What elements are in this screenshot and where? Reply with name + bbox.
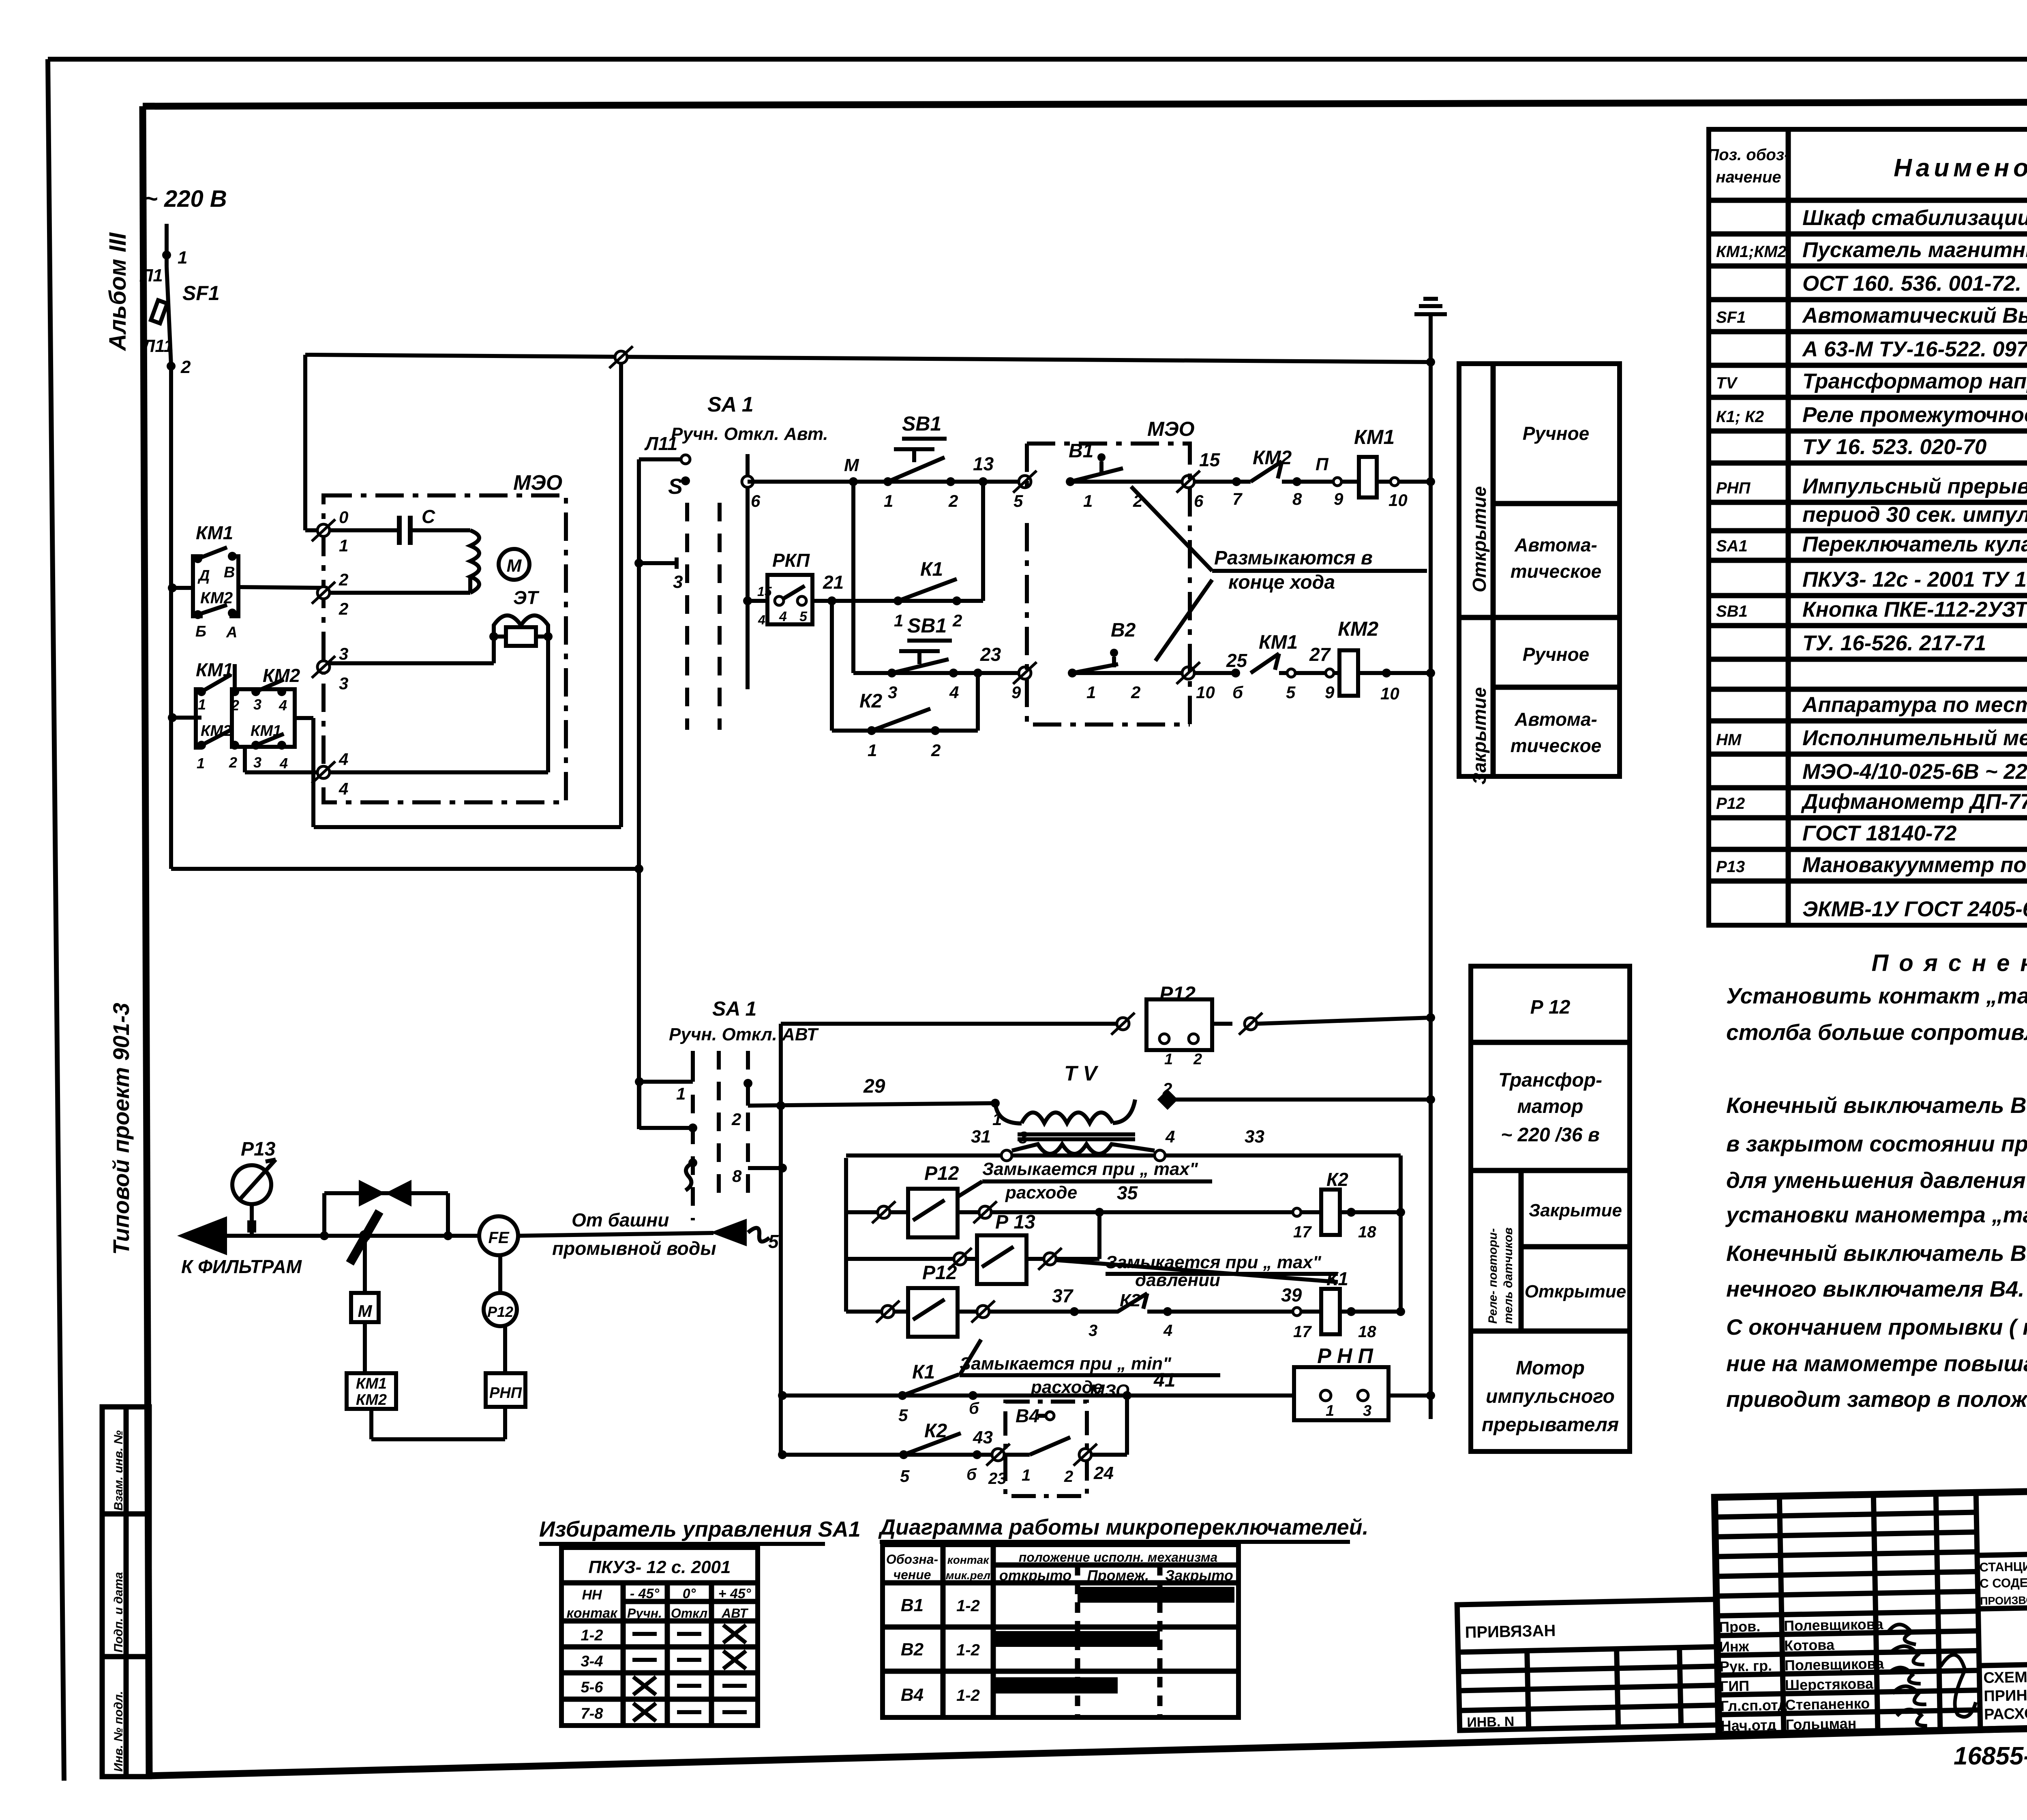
- svg-text:Т V: Т V: [1064, 1062, 1099, 1085]
- svg-text:1: 1: [197, 755, 205, 772]
- drive link: [363, 1239, 367, 1293]
- svg-text:2: 2: [180, 357, 191, 377]
- MEO terminal 10/25: [1176, 662, 1200, 684]
- wire branch 13 down: [981, 482, 985, 601]
- svg-text:ПКУЗ- 12 с. 2001: ПКУЗ- 12 с. 2001: [588, 1557, 731, 1577]
- wire L11 riser: [637, 459, 641, 1129]
- svg-text:Исполнительный механизм: Исполнительный механизм: [1802, 726, 2027, 750]
- svg-text:SA 1: SA 1: [712, 997, 756, 1020]
- svg-text:1-2: 1-2: [956, 1687, 980, 1704]
- svg-text:8: 8: [732, 1166, 742, 1185]
- svg-text:3: 3: [1018, 1128, 1028, 1147]
- svg-text:К1: К1: [920, 559, 943, 580]
- svg-text:КМ2: КМ2: [356, 1391, 387, 1408]
- top bus: [305, 355, 1431, 362]
- svg-text:21: 21: [823, 572, 844, 593]
- svg-text:МЭО: МЭО: [513, 471, 562, 495]
- rung K1 wire: [778, 1391, 787, 1400]
- function table lower: [1471, 966, 1630, 1451]
- svg-text:Размыкаются в: Размыкаются в: [1214, 547, 1373, 569]
- svg-text:5-6: 5-6: [581, 1679, 604, 1696]
- svg-text:1: 1: [1022, 1466, 1031, 1484]
- svg-text:Открытие: Открытие: [1525, 1282, 1626, 1301]
- svg-text:4: 4: [949, 683, 959, 702]
- svg-text:Гл.сп.отд: Гл.сп.отд: [1720, 1696, 1787, 1714]
- box KM1 KM2: [347, 1373, 396, 1409]
- circle P12: [484, 1293, 517, 1326]
- MEO terminal 9: [1013, 662, 1037, 684]
- svg-text:4: 4: [279, 697, 287, 714]
- TV secondary: [1012, 1144, 1155, 1154]
- svg-text:А: А: [226, 624, 237, 641]
- svg-text:Ручное: Ручное: [1523, 423, 1590, 444]
- svg-text:2: 2: [1131, 683, 1140, 702]
- svg-text:приводит затвор в положение: приводит затвор в положение „ закрыто.": [1726, 1387, 2027, 1412]
- svg-text:АВТ: АВТ: [721, 1606, 748, 1621]
- svg-text:2: 2: [339, 599, 348, 618]
- svg-text:В2: В2: [901, 1640, 924, 1659]
- svg-text:Р13: Р13: [241, 1138, 276, 1160]
- svg-text:15: 15: [1199, 449, 1221, 470]
- svg-text:промывной воды: промывной воды: [552, 1238, 716, 1259]
- MEO terminal 5: [1013, 471, 1037, 493]
- svg-text:Замыкается при „ max": Замыкается при „ max": [982, 1159, 1198, 1179]
- svg-text:S: S: [668, 474, 683, 499]
- svg-text:Трансформатор напряжения ТБС3-: Трансформатор напряжения ТБС3-016: [1802, 369, 2027, 393]
- svg-text:1: 1: [1326, 1402, 1334, 1419]
- node M: [849, 477, 858, 486]
- svg-text:матор: матор: [1517, 1096, 1583, 1117]
- svg-text:тель датчиков: тель датчиков: [1502, 1227, 1515, 1324]
- svg-text:SB1: SB1: [907, 614, 947, 637]
- svg-text:25: 25: [1226, 650, 1248, 671]
- svg-text:Промеж.: Промеж.: [1087, 1567, 1149, 1584]
- svg-text:FE: FE: [488, 1229, 509, 1247]
- svg-text:ТУ. 16-526. 217-71: ТУ. 16-526. 217-71: [1802, 631, 1986, 655]
- svg-text:7: 7: [1232, 489, 1243, 508]
- MEO terminal 6/15: [1176, 471, 1200, 493]
- svg-text:3: 3: [339, 674, 348, 693]
- svg-text:0: 0: [339, 508, 348, 527]
- svg-text:МЭО-4/10-025-6В ~ 220В: МЭО-4/10-025-6В ~ 220В: [1802, 760, 2027, 784]
- svg-text:2: 2: [229, 754, 237, 771]
- svg-text:5: 5: [799, 609, 808, 624]
- svg-text:5: 5: [1286, 683, 1296, 702]
- svg-text:15: 15: [757, 584, 772, 599]
- svg-text:2: 2: [231, 697, 239, 714]
- svg-text:Шерстякова: Шерстякова: [1785, 1675, 1874, 1694]
- svg-text:Реле- повтори-: Реле- повтори-: [1486, 1228, 1500, 1324]
- svg-text:4: 4: [339, 779, 348, 798]
- svg-text:2: 2: [731, 1110, 741, 1129]
- svg-text:С окончанием промывки ( после: С окончанием промывки ( после закрытия з…: [1726, 1314, 2027, 1340]
- svg-text:ГОСТ 18140-72: ГОСТ 18140-72: [1802, 821, 1956, 845]
- svg-text:1-2: 1-2: [581, 1627, 603, 1644]
- svg-text:+ 45°: + 45°: [718, 1586, 751, 1601]
- svg-text:конце хода: конце хода: [1228, 572, 1335, 593]
- svg-text:~ 220 /36 в: ~ 220 /36 в: [1501, 1124, 1600, 1146]
- svg-text:Котова: Котова: [1784, 1636, 1835, 1654]
- limit switch box dash-dot: [1027, 444, 1190, 725]
- svg-text:К1; К2: К1; К2: [1716, 408, 1764, 426]
- terminal 0/1: [312, 519, 335, 541]
- svg-text:16855-03: 16855-03: [1954, 1742, 2027, 1770]
- svg-text:К1: К1: [1326, 1268, 1348, 1289]
- wire left bus down: [169, 366, 173, 869]
- riser to rungs: [779, 1024, 783, 1455]
- svg-text:1: 1: [676, 1084, 686, 1103]
- svg-text:КМ2: КМ2: [263, 665, 300, 686]
- box RNP: [486, 1373, 525, 1407]
- svg-text:Полевщикова: Полевщикова: [1785, 1655, 1885, 1674]
- svg-text:43: 43: [973, 1428, 993, 1447]
- svg-text:1: 1: [178, 248, 187, 268]
- svg-text:Дифманометр ДП-778р ~ 220В: Дифманометр ДП-778р ~ 220В: [1801, 790, 2027, 814]
- svg-text:Р12: Р12: [1716, 795, 1745, 812]
- rung A wire: [846, 1210, 908, 1214]
- svg-text:контак: контак: [947, 1554, 990, 1566]
- S hook: [688, 1158, 697, 1167]
- svg-text:4: 4: [279, 755, 288, 772]
- svg-text:6: 6: [1194, 491, 1204, 510]
- svg-text:Открытие: Открытие: [1469, 486, 1490, 592]
- svg-text:РНП: РНП: [1716, 479, 1751, 497]
- breaker SF1: [167, 267, 171, 365]
- svg-text:Полевщикова: Полевщикова: [1784, 1616, 1884, 1634]
- svg-text:Автома-: Автома-: [1514, 709, 1597, 730]
- svg-text:Р12: Р12: [922, 1262, 957, 1284]
- svg-text:ТУ 16. 523. 020-70: ТУ 16. 523. 020-70: [1802, 435, 1986, 459]
- svg-text:Д: Д: [197, 567, 210, 584]
- svg-text:б: б: [1232, 683, 1243, 702]
- L11 corner to col1: [637, 1082, 641, 1128]
- capacitor C: [329, 528, 399, 532]
- svg-text:Конечный выключатель В 4 уст: Конечный выключатель В 4 установить так,…: [1726, 1093, 2027, 1118]
- svg-text:17: 17: [1293, 1323, 1312, 1341]
- junction on bus: [609, 346, 633, 368]
- svg-text:5: 5: [1013, 491, 1023, 510]
- svg-text:КМ1: КМ1: [1354, 426, 1395, 448]
- svg-text:Переключатель кулачковый: Переключатель кулачковый: [1802, 532, 2027, 556]
- svg-text:17: 17: [1293, 1223, 1312, 1241]
- svg-text:Избиратель управления SA1: Избиратель управления SA1: [539, 1517, 861, 1541]
- svg-text:9: 9: [1325, 683, 1335, 702]
- svg-text:3: 3: [673, 572, 683, 592]
- wire 2 to bus: [1168, 1098, 1431, 1102]
- svg-text:5: 5: [768, 1231, 779, 1252]
- svg-text:SA1: SA1: [1716, 537, 1748, 555]
- svg-text:Диаграмма работы микропере: Диаграмма работы микропереключателей.: [878, 1515, 1369, 1539]
- svg-text:18: 18: [1358, 1323, 1376, 1341]
- wire t4: [329, 770, 548, 774]
- bypass valve: [322, 1193, 326, 1236]
- diagram bars: [1078, 1587, 1234, 1603]
- svg-text:период 30 сек. импульс - 50%: период 30 сек. импульс - 50%: [1802, 503, 2027, 527]
- svg-text:0°: 0°: [683, 1586, 696, 1601]
- svg-text:Р 13: Р 13: [995, 1211, 1035, 1233]
- svg-text:1: 1: [1086, 683, 1096, 702]
- svg-text:КМ1;КМ2: КМ1;КМ2: [1716, 243, 1787, 261]
- svg-text:Трансфор-: Трансфор-: [1498, 1070, 1602, 1091]
- svg-text:Р12: Р12: [924, 1163, 959, 1184]
- wire L1 drop: [165, 224, 169, 267]
- wire return riser: [619, 357, 623, 827]
- svg-text:К2: К2: [859, 690, 883, 712]
- svg-text:В4: В4: [901, 1685, 924, 1705]
- svg-text:для уменьшения давления до: для уменьшения давления до величины мень…: [1726, 1168, 2027, 1193]
- svg-text:18: 18: [1358, 1223, 1376, 1241]
- svg-text:3: 3: [1088, 1322, 1097, 1340]
- svg-text:импульсного: импульсного: [1486, 1386, 1615, 1407]
- svg-text:МЗО: МЗО: [1090, 1381, 1129, 1401]
- svg-text:начение: начение: [1716, 168, 1781, 186]
- svg-text:КМ1: КМ1: [356, 1375, 387, 1392]
- margin stamp strip: [102, 1407, 149, 1777]
- svg-text:1: 1: [884, 491, 893, 510]
- privyazan block: [1457, 1599, 1718, 1730]
- svg-text:27: 27: [1309, 644, 1331, 665]
- svg-text:9: 9: [1334, 489, 1343, 508]
- svg-text:Закрытие: Закрытие: [1529, 1200, 1622, 1220]
- svg-text:положение исполн. механизма: положение исполн. механизма: [1019, 1550, 1218, 1565]
- rung C wire: [846, 1310, 908, 1314]
- selector table: [561, 1548, 758, 1726]
- svg-text:9: 9: [1011, 683, 1021, 702]
- svg-text:КМ1: КМ1: [196, 522, 233, 543]
- svg-text:нечного выключателя В4.: нечного выключателя В4.: [1726, 1276, 2025, 1301]
- right bus: [1429, 362, 1433, 1419]
- svg-text:Альбом III: Альбом III: [105, 232, 131, 352]
- svg-text:Пускатель магнитный ПМЕ-114: Пускатель магнитный ПМЕ-114: [1802, 238, 2027, 262]
- svg-text:Р12: Р12: [1159, 982, 1196, 1005]
- svg-text:Подп. и дата: Подп. и дата: [112, 1572, 125, 1653]
- svg-text:Инв. № подл.: Инв. № подл.: [112, 1691, 125, 1772]
- wire 29: [748, 1103, 995, 1106]
- svg-text:3: 3: [1363, 1402, 1371, 1419]
- svg-text:НН: НН: [582, 1587, 602, 1603]
- relay P12 box: [1146, 999, 1212, 1050]
- svg-text:К2: К2: [1326, 1169, 1348, 1190]
- svg-text:Конечный выключатель В1 и В: Конечный выключатель В1 и В2 размыкается…: [1726, 1241, 2027, 1266]
- svg-text:3: 3: [339, 644, 348, 663]
- svg-text:МЭО: МЭО: [1147, 418, 1195, 440]
- svg-text:Откл: Откл: [671, 1606, 707, 1621]
- svg-text:3: 3: [253, 754, 261, 771]
- svg-text:П: П: [1316, 454, 1329, 474]
- svg-text:Поз. обоз-: Поз. обоз-: [1707, 146, 1789, 164]
- rung k1 wire: [812, 599, 983, 603]
- svg-text:3: 3: [253, 696, 261, 713]
- svg-text:31: 31: [971, 1127, 991, 1147]
- svg-text:А 63-М ТУ-16-522. 097-73.: А 63-М ТУ-16-522. 097-73.: [1802, 337, 2027, 361]
- svg-text:ИНВ. N: ИНВ. N: [1467, 1714, 1515, 1730]
- svg-text:ГИП: ГИП: [1720, 1677, 1749, 1694]
- svg-text:10: 10: [1388, 491, 1408, 510]
- svg-text:23: 23: [980, 644, 1001, 665]
- svg-text:35: 35: [1117, 1182, 1138, 1203]
- svg-text:SB1: SB1: [902, 412, 941, 435]
- svg-text:13: 13: [973, 453, 994, 474]
- svg-text:2: 2: [1193, 1051, 1202, 1068]
- svg-text:К1: К1: [912, 1361, 935, 1383]
- svg-text:Установить контакт „max" вак: Установить контакт „max" вакуумметра Р 1…: [1726, 983, 2027, 1008]
- svg-text:- 45°: - 45°: [630, 1586, 660, 1601]
- svg-text:Инж: Инж: [1719, 1638, 1749, 1655]
- svg-text:C: C: [422, 506, 435, 527]
- rung P12 wire: [781, 1022, 1123, 1026]
- pipe main line: [177, 1216, 227, 1255]
- svg-text:прерывателя: прерывателя: [1482, 1414, 1619, 1436]
- svg-text:39: 39: [1281, 1284, 1302, 1306]
- svg-text:2: 2: [931, 741, 941, 760]
- svg-text:б: б: [969, 1400, 979, 1417]
- svg-text:Рук. гр.: Рук. гр.: [1720, 1657, 1772, 1675]
- svg-text:SA 1: SA 1: [707, 393, 754, 416]
- contact KM2 NC: [1194, 480, 1251, 484]
- svg-text:Обозна-: Обозна-: [886, 1552, 938, 1567]
- svg-text:1: 1: [1164, 1051, 1173, 1068]
- svg-text:4: 4: [1163, 1322, 1172, 1340]
- svg-text:Закрыто: Закрыто: [1165, 1567, 1233, 1584]
- svg-text:1: 1: [1083, 491, 1093, 510]
- rung B wire: [846, 1257, 977, 1261]
- svg-text:3: 3: [888, 683, 897, 702]
- svg-text:Р13: Р13: [1716, 858, 1745, 876]
- svg-text:Аппаратура по месту: Аппаратура по месту: [1802, 693, 2027, 717]
- svg-text:В: В: [224, 564, 235, 581]
- left rail: [844, 1158, 848, 1312]
- svg-text:2: 2: [339, 570, 348, 589]
- svg-text:10: 10: [1380, 684, 1399, 703]
- svg-text:Р 12: Р 12: [1530, 997, 1571, 1018]
- svg-text:Кнопка ПКЕ-112-2УЗТУ.16.526.21: Кнопка ПКЕ-112-2УЗТУ.16.526.216-71: [1802, 598, 2027, 622]
- wire t3: [329, 661, 494, 665]
- svg-text:7-8: 7-8: [581, 1705, 604, 1722]
- svg-text:В4: В4: [1016, 1405, 1039, 1426]
- svg-text:ПРИВЯЗАН: ПРИВЯЗАН: [1465, 1622, 1556, 1642]
- svg-text:3-4: 3-4: [581, 1653, 603, 1670]
- svg-text:2: 2: [1064, 1468, 1073, 1486]
- svg-text:От башни: От башни: [572, 1209, 669, 1230]
- svg-text:5: 5: [900, 1466, 910, 1486]
- wires from lower block: [233, 664, 237, 692]
- wire L11 feed horizontal: [171, 867, 639, 871]
- svg-text:SB1: SB1: [1716, 602, 1748, 620]
- terminal 2: [312, 582, 335, 604]
- svg-text:1-2: 1-2: [956, 1641, 980, 1659]
- svg-text:TV: TV: [1716, 374, 1738, 392]
- svg-text:Пров.: Пров.: [1719, 1618, 1761, 1636]
- svg-text:~ 220 В: ~ 220 В: [144, 186, 227, 212]
- svg-text:Взам. инв. №: Взам. инв. №: [112, 1430, 125, 1511]
- svg-text:В2: В2: [1111, 620, 1136, 641]
- svg-text:8: 8: [1292, 489, 1302, 508]
- box M: [351, 1293, 379, 1322]
- svg-text:4: 4: [339, 750, 348, 769]
- svg-text:Ручн. Откл. АВТ: Ручн. Откл. АВТ: [669, 1025, 819, 1044]
- svg-text:установки манометра „max.": установки манометра „max.": [1725, 1202, 2027, 1227]
- svg-text:2: 2: [948, 491, 958, 510]
- svg-text:5: 5: [898, 1406, 908, 1425]
- svg-text:SF1: SF1: [182, 282, 220, 304]
- circle FE: [479, 1216, 518, 1255]
- svg-text:К ФИЛЬТРАМ: К ФИЛЬТРАМ: [181, 1256, 302, 1277]
- svg-text:1: 1: [339, 536, 348, 555]
- svg-text:Замыкается при „ min": Замыкается при „ min": [960, 1354, 1172, 1374]
- svg-text:Пояснение к схеме: Пояснение к схеме: [1872, 950, 2027, 976]
- SA1 contact S: [681, 476, 690, 485]
- svg-text:Импульсный прерыватель РНП-2: Импульсный прерыватель РНП-2: [1802, 474, 2027, 498]
- svg-text:Ручное: Ручное: [1523, 644, 1590, 665]
- svg-text:РНП: РНП: [1317, 1344, 1379, 1368]
- svg-text:ние на мамометре повышается: ние на мамометре повышается и он своим к…: [1726, 1351, 2027, 1376]
- svg-text:1: 1: [198, 696, 206, 713]
- svg-text:РНП: РНП: [489, 1385, 522, 1402]
- drawing frame: [143, 101, 2027, 106]
- svg-text:4: 4: [758, 613, 765, 627]
- svg-text:М: М: [358, 1301, 373, 1321]
- svg-text:6: 6: [751, 491, 761, 510]
- terminal 4: [312, 761, 335, 783]
- right rail: [1399, 1158, 1403, 1312]
- tap 2 / wire 29 start: [744, 1079, 752, 1088]
- svg-text:ЭКМВ-1У ГОСТ 2405-63: ЭКМВ-1У ГОСТ 2405-63: [1802, 897, 2027, 921]
- svg-text:расходе: расходе: [1005, 1183, 1077, 1203]
- svg-text:Ручн.: Ручн.: [627, 1606, 662, 1621]
- bus drop to MEO: [303, 355, 307, 530]
- svg-text:Типовой проект 901-3: Типовой проект 901-3: [108, 1003, 134, 1255]
- mode table open/close: [1459, 364, 1620, 776]
- sheet outer border: [48, 57, 2027, 62]
- rung2 wire: [853, 671, 1025, 675]
- svg-text:Б: Б: [195, 623, 206, 640]
- svg-text:Мановакуумметр показывающий: Мановакуумметр показывающий: [1802, 853, 2027, 877]
- svg-text:33: 33: [1245, 1127, 1264, 1147]
- svg-text:мик.рел: мик.рел: [946, 1569, 990, 1582]
- svg-text:КМ2: КМ2: [200, 589, 233, 607]
- svg-text:Л11: Л11: [141, 336, 174, 356]
- svg-text:Замыкается при „ max": Замыкается при „ max": [1106, 1252, 1322, 1272]
- svg-text:24: 24: [1093, 1463, 1114, 1483]
- pipe to tower: [518, 1233, 714, 1236]
- svg-text:М: М: [844, 455, 859, 475]
- svg-text:КМ2: КМ2: [1338, 617, 1378, 640]
- switch B4 dashed box: [1005, 1402, 1087, 1496]
- svg-text:2: 2: [952, 611, 962, 630]
- svg-text:Наименование: Наименование: [1894, 154, 2027, 182]
- svg-text:М: М: [507, 556, 522, 576]
- ground symbol: [1429, 314, 1433, 362]
- svg-text:Автома-: Автома-: [1514, 534, 1597, 555]
- wire 23 down: [976, 673, 980, 731]
- svg-text:Мотор: Мотор: [1516, 1357, 1585, 1379]
- motor M: [499, 549, 529, 580]
- tap 1: [635, 1077, 644, 1086]
- svg-text:Гольцман: Гольцман: [1785, 1715, 1856, 1733]
- rung K2 wire: [778, 1450, 787, 1459]
- damper: [350, 1211, 379, 1263]
- svg-text:Степаненко: Степаненко: [1785, 1695, 1870, 1713]
- svg-text:10: 10: [1196, 683, 1215, 702]
- svg-text:Нач.отд: Нач.отд: [1721, 1717, 1776, 1734]
- terminal 3: [312, 656, 335, 678]
- SA1 tap 3: [634, 559, 643, 568]
- svg-text:1-2: 1-2: [956, 1597, 980, 1615]
- title block: [1714, 1483, 2027, 1734]
- svg-text:НМ: НМ: [1716, 731, 1742, 749]
- svg-text:Шкаф стабилизации промывки: Шкаф стабилизации промывки шсп: [1802, 206, 2027, 230]
- tap 8: [748, 1166, 782, 1170]
